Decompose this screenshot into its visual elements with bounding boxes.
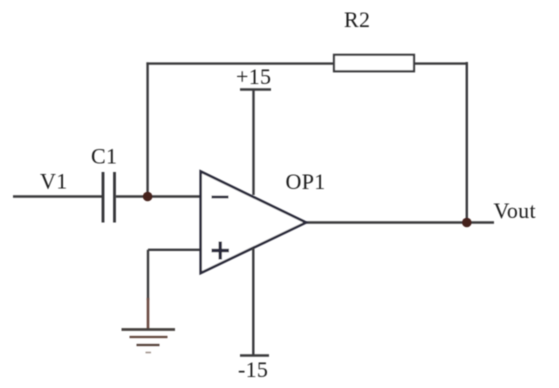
svg-text:OP1: OP1 — [286, 169, 326, 194]
svg-text:+15: +15 — [236, 64, 271, 89]
svg-text:C1: C1 — [91, 144, 117, 169]
svg-text:V1: V1 — [40, 169, 68, 194]
svg-text:-15: -15 — [238, 357, 268, 382]
svg-text:Vout: Vout — [494, 198, 536, 223]
svg-text:R2: R2 — [344, 7, 370, 32]
